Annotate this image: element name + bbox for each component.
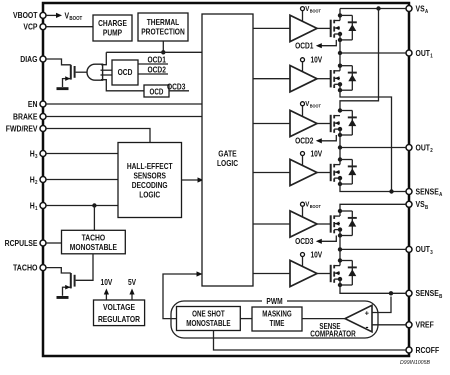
net stub OCD3 at half-bridge (295, 236, 336, 247)
wire gate logic to driver C1 high-side (VBOOT) (253, 223, 290, 225)
svg-text:A: A (439, 192, 442, 198)
pin SENSEB (406, 288, 442, 300)
svg-text:OCD1: OCD1 (295, 40, 314, 50)
wire phase1 high drain to VSA rail (339, 9, 341, 21)
junction OUT2 node (338, 145, 342, 149)
wire driver to power MOSFET Q1 phase1 high-side gate (317, 27, 331, 29)
wire gate logic to driver C2 low-side (10V) (253, 273, 290, 275)
junction thermal/diag net (161, 50, 165, 54)
svg-text:FWD/REV: FWD/REV (6, 123, 38, 133)
wire phase3 high source to OUT3 rail (339, 230, 341, 250)
pin H3 (30, 148, 46, 160)
supply VBOOT for driver A1 high-side (VBOOT) (301, 4, 321, 22)
svg-text:VCP: VCP (23, 22, 37, 32)
svg-text:B: B (425, 205, 428, 211)
svg-text:SENSORS: SENSORS (133, 170, 166, 180)
wire driver to power MOSFET Q4 phase2 low-side gate (317, 172, 331, 174)
svg-text:10V: 10V (311, 149, 323, 158)
junction SENSEB comparator tap (389, 291, 393, 295)
svg-text:VBOOT: VBOOT (13, 10, 38, 20)
wire TACHO pin to transistor drain (46, 268, 71, 273)
net stub OCD2 at half-bridge (295, 135, 336, 146)
wire VCP to charge pump (46, 26, 93, 28)
supply VBOOT for driver C1 high-side (VBOOT) (301, 199, 321, 217)
svg-text:LOGIC: LOGIC (139, 189, 160, 199)
wire gate logic to driver A2 low-side (10V) (253, 78, 290, 80)
svg-text:OCD2: OCD2 (148, 64, 167, 74)
svg-text:BRAKE: BRAKE (13, 111, 38, 121)
svg-text:10V: 10V (101, 277, 113, 287)
pin H2 (30, 174, 46, 186)
body diode of power MOSFET Q2 phase1 low-side (340, 66, 357, 91)
pin RCPULSE (5, 238, 46, 248)
wire phase1 low source to SENSEA bus (340, 84, 392, 191)
wire tacho monostable to M2 gate (76, 254, 93, 280)
junction OUT1 node (338, 51, 342, 55)
PWM rounded group box (171, 296, 378, 338)
block CHARGE PUMP (93, 15, 132, 41)
wire VBOOT internal arrow (46, 13, 62, 18)
driver B1 high-side (VBOOT) (290, 110, 317, 136)
wire phase3 low source to SENSEB line (340, 279, 406, 293)
svg-text:GATE: GATE (218, 149, 237, 159)
block GATE LOGIC (202, 14, 253, 286)
junction phase2 low source node (338, 182, 342, 186)
wire one shot monostable to gate logic with arrow (163, 271, 203, 318)
svg-text:VS: VS (416, 199, 425, 209)
svg-text:SENSE: SENSE (416, 186, 440, 196)
pin VSB (406, 199, 428, 211)
net stub OCD2 (138, 64, 168, 74)
svg-text:BOOT: BOOT (310, 204, 321, 210)
wire OUT1 rail (340, 52, 406, 54)
svg-text:PUMP: PUMP (103, 28, 123, 38)
junction phase2 high source stub (338, 127, 342, 131)
wire phase2 low drain from OUT2 (339, 148, 341, 165)
svg-text:DIAG: DIAG (20, 54, 37, 64)
junction phase3 low source stub (338, 277, 342, 281)
svg-text:OCD3: OCD3 (295, 236, 314, 246)
wire phase1 low drain from OUT1 (339, 53, 341, 71)
driver B2 low-side (10V) (290, 159, 317, 185)
svg-text:H: H (30, 148, 35, 158)
net stub OCD3 (167, 82, 189, 92)
svg-text:D99IN1005B: D99IN1005B (400, 360, 430, 366)
junction VSA bus (376, 6, 380, 10)
junction phase1 high drain node (338, 13, 342, 17)
junction phase2 low drain node (338, 157, 342, 161)
svg-text:3: 3 (430, 250, 433, 256)
wire hall decoding to gate logic with arrow (182, 177, 204, 182)
wire BRAKE to gate logic (46, 116, 202, 118)
block ONE SHOT MONOSTABLE (177, 307, 241, 331)
svg-text:2: 2 (430, 148, 433, 154)
wire driver to power MOSFET Q3 phase2 high-side gate (317, 123, 331, 125)
junction phase3 high source stub (338, 227, 342, 231)
svg-text:TACHO: TACHO (13, 262, 38, 272)
svg-text:PWM: PWM (266, 296, 282, 306)
svg-text:OCD: OCD (118, 67, 133, 77)
svg-text:5V: 5V (128, 277, 136, 287)
svg-text:H: H (30, 200, 35, 210)
svg-text:BOOT: BOOT (310, 9, 321, 15)
label SENSE COMPARATOR (310, 322, 356, 339)
wire driver to power MOSFET Q2 phase1 low-side gate (317, 78, 331, 80)
svg-text:OUT: OUT (416, 244, 431, 254)
svg-text:VS: VS (416, 3, 425, 13)
driver A1 high-side (VBOOT) (290, 15, 317, 41)
svg-text:OUT: OUT (416, 48, 431, 58)
wire sense comparator output to masking time (302, 318, 345, 320)
transistor M1 DIAG open-drain (63, 65, 75, 87)
svg-text:H: H (30, 174, 35, 184)
junction phase2 high source node (338, 133, 342, 137)
wire comparator minus input to VREF (372, 324, 406, 326)
pin VSA (406, 3, 428, 15)
svg-text:MONOSTABLE: MONOSTABLE (186, 319, 230, 328)
wire one shot to masking time (240, 318, 252, 320)
svg-text:TACHO: TACHO (82, 233, 106, 243)
wire DIAG pin to transistor drain (46, 59, 71, 65)
junction H1 tacho branch (92, 203, 96, 207)
svg-text:3: 3 (35, 154, 38, 160)
block VOLTAGE REGULATOR (94, 300, 145, 326)
junction phase2 high drain node (338, 108, 342, 112)
svg-text:OCD2: OCD2 (295, 136, 314, 146)
junction phase1 high source node (338, 38, 342, 42)
wire OUT2 rail (340, 147, 406, 149)
wire VSA bus to phase2 high drain (340, 9, 379, 111)
OR gate U1 diag combiner (87, 64, 103, 80)
driver C2 low-side (10V) (290, 260, 317, 286)
svg-text:RCOFF: RCOFF (416, 345, 440, 355)
junction phase1 high source stub (338, 32, 342, 36)
svg-text:A: A (425, 9, 428, 15)
power MOSFET Q1 phase1 high-side (331, 20, 340, 38)
wire RCOFF to one shot monostable (214, 331, 406, 351)
svg-text:BOOT: BOOT (69, 16, 82, 22)
svg-text:1: 1 (430, 54, 433, 60)
block TACHO MONOSTABLE (62, 230, 126, 254)
svg-text:-: - (366, 322, 369, 332)
pin BRAKE (13, 111, 46, 121)
driver A2 low-side (10V) (290, 66, 317, 92)
svg-text:2: 2 (35, 180, 38, 186)
svg-text:PROTECTION: PROTECTION (141, 27, 185, 37)
wire gate logic to driver B2 low-side (10V) (253, 172, 290, 174)
junction OUT3 node (338, 247, 342, 251)
wire OCD box outputs to OR gate (101, 70, 113, 75)
supply 10V for driver C2 low-side (10V) (301, 250, 323, 266)
wire driver to power MOSFET Q5 phase3 high-side gate (317, 223, 331, 225)
svg-text:BOOT: BOOT (310, 104, 321, 110)
svg-text:B: B (439, 294, 442, 300)
wire phase1 high source to OUT1 rail (339, 34, 341, 53)
drawing id D99IN1005B (400, 360, 430, 366)
svg-text:OCD1: OCD1 (148, 54, 167, 64)
block OCD comparator 3 (144, 85, 169, 97)
svg-text:10V: 10V (311, 250, 323, 259)
wire thermal input to OR gate (101, 52, 106, 64)
10V regulator output arrow (101, 277, 113, 300)
wire FWD/REV to hall decoding logic (46, 129, 150, 143)
body diode of power MOSFET Q1 phase1 high-side (340, 15, 357, 40)
block MASKING TIME (252, 307, 302, 331)
svg-text:THERMAL: THERMAL (147, 17, 180, 27)
svg-text:TIME: TIME (270, 319, 285, 328)
wire phase2 high source to OUT2 rail (339, 129, 341, 147)
wire comparator plus input to SENSEB line (372, 297, 391, 313)
supply 10V for driver A2 low-side (10V) (301, 56, 323, 72)
pin OUT2 (406, 142, 433, 154)
svg-text:LOGIC: LOGIC (217, 158, 238, 168)
block OCD comparator 1-2 (112, 60, 138, 85)
junction phase3 high drain node (338, 209, 342, 213)
power MOSFET Q2 phase1 low-side (331, 70, 340, 88)
supply VBOOT for driver B1 high-side (VBOOT) (301, 99, 321, 117)
pin VCP (23, 22, 46, 32)
wire phase3 low drain from OUT3 (339, 249, 341, 265)
svg-text:OCD: OCD (150, 87, 164, 96)
svg-text:RCPULSE: RCPULSE (5, 238, 38, 248)
driver C1 high-side (VBOOT) (290, 211, 317, 237)
svg-text:10V: 10V (311, 56, 323, 65)
wire phase2 low source to SENSEA line (340, 178, 406, 191)
wire H1 branch to tacho monostable (93, 206, 95, 231)
wire H1 to hall decoding logic (46, 205, 118, 207)
svg-text:EN: EN (28, 99, 38, 109)
pin FWD/REV (6, 123, 46, 133)
wire H3 to hall decoding logic (46, 153, 118, 155)
junction phase1 low source stub (338, 82, 342, 86)
pin SENSEA (406, 186, 442, 198)
wire OCD3 input to OR gate (101, 80, 144, 91)
body diode of power MOSFET Q4 phase2 low-side (340, 160, 357, 185)
pin OUT1 (406, 48, 433, 60)
wire VSB to phase3 high drain (340, 204, 406, 216)
svg-text:MONOSTABLE: MONOSTABLE (70, 242, 118, 252)
wire driver to power MOSFET Q6 phase3 low-side gate (317, 273, 331, 275)
wire H2 to hall decoding logic (46, 179, 118, 181)
power MOSFET Q3 phase2 high-side (331, 115, 340, 133)
pin OUT3 (406, 244, 433, 256)
body diode of power MOSFET Q3 phase2 high-side (340, 111, 357, 136)
IC boundary frame (43, 3, 409, 356)
net stub OCD1 at half-bridge (295, 40, 336, 51)
svg-text:OCD3: OCD3 (167, 82, 186, 92)
5V regulator output arrow (128, 277, 136, 300)
svg-text:VREF: VREF (416, 320, 434, 330)
pin RCOFF (406, 345, 439, 355)
junction phase3 high source node (338, 233, 342, 237)
block HALL-EFFECT SENSORS DECODING LOGIC (118, 143, 182, 218)
body diode of power MOSFET Q5 phase3 high-side (340, 211, 357, 236)
net stub OCD1 (138, 54, 168, 64)
transistor M2 TACHO open-drain (63, 273, 75, 296)
wire thermal protection to diag-net line (162, 41, 164, 52)
svg-text:HALL-EFFECT: HALL-EFFECT (127, 161, 173, 171)
power MOSFET Q5 phase3 high-side (331, 215, 340, 233)
junction phase1 low drain node (338, 63, 342, 67)
wire EN to gate logic (46, 103, 202, 105)
wire RCPULSE to tacho monostable (46, 242, 61, 244)
ground for DIAG transistor (57, 87, 69, 90)
svg-text:OUT: OUT (416, 142, 431, 152)
junction phase3 low source node (338, 283, 342, 287)
body diode of power MOSFET Q6 phase3 low-side (340, 261, 357, 286)
wire gate logic to driver A1 high-side (VBOOT) (253, 27, 290, 29)
supply 10V for driver B2 low-side (10V) (301, 149, 323, 165)
svg-text:+: + (365, 309, 370, 318)
junction phase3 low drain node (338, 258, 342, 262)
svg-text:1: 1 (35, 206, 38, 212)
comparator U2 SENSE COMPARATOR (345, 305, 372, 332)
wire OR gate output to M1 gate (76, 71, 87, 73)
ground for TACHO transistor (57, 296, 69, 299)
power MOSFET Q4 phase2 low-side (331, 164, 340, 182)
svg-text:CHARGE: CHARGE (98, 18, 127, 28)
svg-text:DECODING: DECODING (132, 180, 168, 190)
junction phase2 low source stub (338, 176, 342, 180)
svg-text:COMPARATOR: COMPARATOR (310, 329, 356, 338)
pin H1 (30, 200, 46, 212)
svg-text:REGULATOR: REGULATOR (98, 314, 140, 324)
wire VSA rail (340, 8, 406, 10)
pin TACHO (13, 262, 46, 272)
pin VBOOT (13, 10, 46, 20)
junction phase1 low source node (338, 88, 342, 92)
pin EN (28, 99, 46, 109)
svg-text:SENSE: SENSE (416, 288, 440, 298)
wire gate logic to driver B1 high-side (VBOOT) (253, 123, 290, 125)
svg-text:MASKING: MASKING (262, 310, 292, 319)
power MOSFET Q6 phase3 low-side (331, 265, 340, 283)
pin DIAG (20, 54, 46, 64)
junction SENSEA bus joins line (389, 189, 393, 193)
svg-text:ONE SHOT: ONE SHOT (192, 310, 225, 319)
wire diag net to gate logic (106, 51, 202, 53)
svg-text:VOLTAGE: VOLTAGE (103, 302, 135, 312)
block THERMAL PROTECTION (138, 13, 188, 41)
pin VREF (406, 320, 434, 330)
net label V_BOOT at VBOOT pin (65, 10, 83, 22)
wire OUT3 rail (340, 248, 406, 250)
